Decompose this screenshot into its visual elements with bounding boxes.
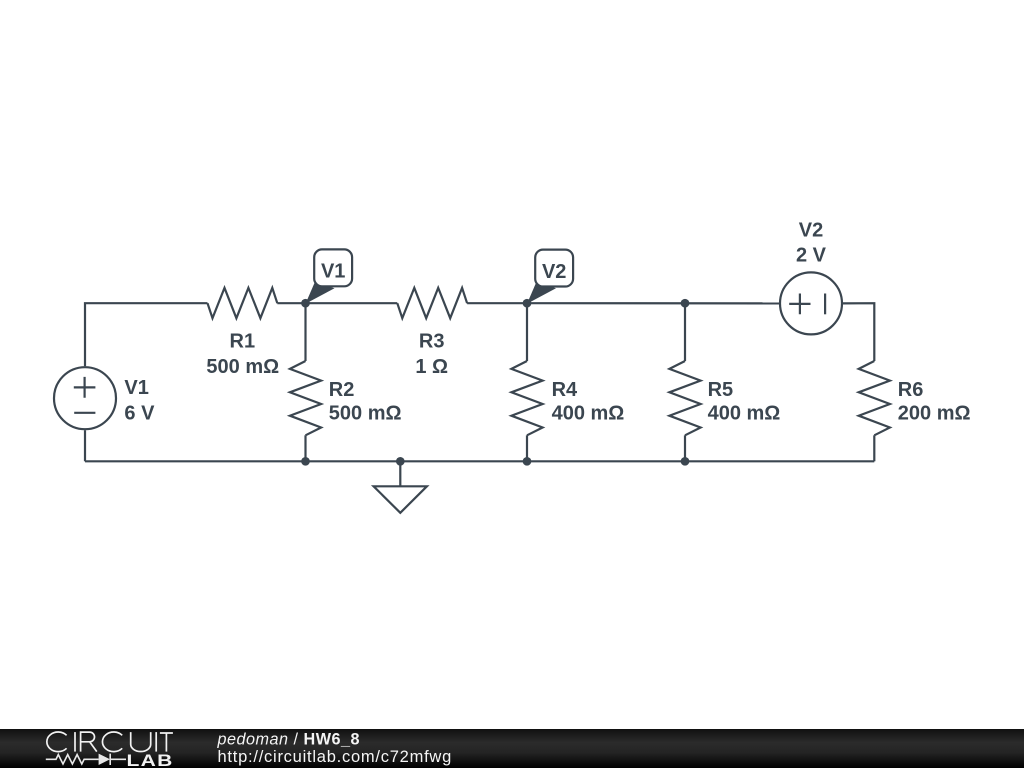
svg-text:400 mΩ: 400 mΩ [552,403,625,425]
svg-text:LAB: LAB [127,751,174,768]
node A: net label callout "V1" [306,249,353,303]
CircuitLab logo: resistor-diode squiggle [46,754,126,765]
wire: R5 junction down to R5 [684,303,686,361]
node V1 junction [301,299,310,308]
voltage source V1 (circle with + and - ) [54,367,116,429]
resistor R1 [208,288,278,318]
svg-text:6 V: 6 V [124,403,155,425]
svg-text:http://circuitlab.com/c72mfwg: http://circuitlab.com/c72mfwg [218,748,453,766]
CircuitLab logo: CIRCUIT wordmark [47,732,173,752]
voltage source V2 (circle with + and | ) [780,272,842,334]
wire: bottom rail [85,460,874,462]
wire: top rail node V2 to R5 junction and on to V2 source [527,302,779,304]
wire: node V1 down to R2 [304,303,306,361]
footer bar background [0,729,1024,768]
wire: R2 down to bottom rail [304,435,306,461]
node B: net label callout "V2" [527,250,573,304]
wire: top rail R3 to node V2 [467,302,527,304]
resistor R5 [669,361,700,435]
svg-text:1 Ω: 1 Ω [415,356,448,378]
wire: R5 down to bottom rail [684,435,686,461]
svg-text:pedoman / HW6_8: pedoman / HW6_8 [217,731,361,749]
junction bottom R2 [301,457,310,466]
node V2 junction [523,299,532,308]
svg-text:400 mΩ: 400 mΩ [708,403,781,425]
svg-text:2 V: 2 V [796,245,827,267]
junction bottom R4 [523,457,532,466]
junction top R5 [681,299,690,308]
resistor R4 [511,361,542,435]
resistor R2 [290,361,321,435]
svg-text:V1: V1 [321,261,345,283]
svg-text:R1: R1 [230,331,256,353]
resistor R6 [859,361,890,435]
svg-text:V2: V2 [542,261,566,283]
svg-text:V2: V2 [799,219,823,241]
svg-text:500 mΩ: 500 mΩ [206,356,279,378]
resistor R3 [397,288,467,318]
svg-text:R2: R2 [329,379,355,401]
svg-text:200 mΩ: 200 mΩ [898,403,971,425]
wire: top rail R1 to node V1 [277,302,305,304]
svg-text:R4: R4 [552,379,578,401]
svg-text:R6: R6 [898,379,924,401]
wire: left rail from V1 source up to top rail, across to R1 [85,303,208,366]
junction ground [396,457,405,466]
wire: V2 source to right rail, down to R6 [843,303,874,361]
wire: node V2 down to R4 [526,303,528,361]
ground symbol [374,461,427,513]
svg-text:V1: V1 [124,377,148,399]
junction bottom R5 [681,457,690,466]
wire: R6 down to bottom rail corner [873,435,875,461]
svg-text:R5: R5 [708,379,734,401]
wire: R4 down to bottom rail [526,435,528,461]
wire: top rail node V1 to R3 [306,302,398,304]
wire: left rail from V1 source down to bottom rail [84,430,86,461]
svg-text:500 mΩ: 500 mΩ [329,403,402,425]
svg-text:R3: R3 [419,331,445,353]
